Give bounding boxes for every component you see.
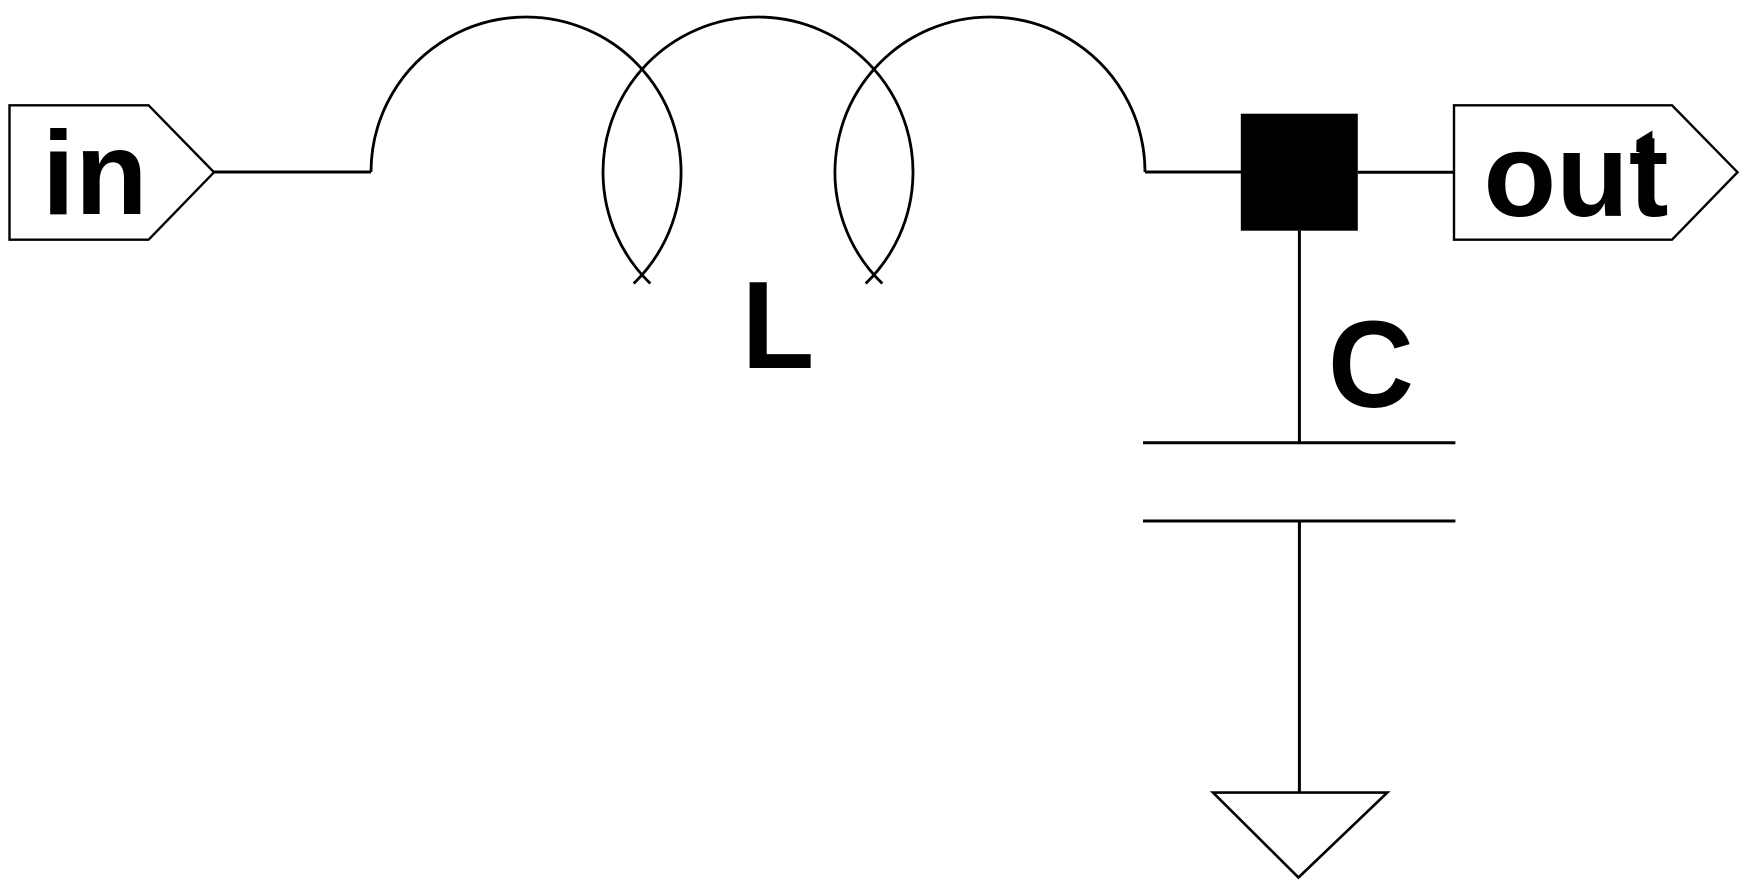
ground (1213, 793, 1387, 878)
label L (742, 256, 815, 395)
inductor L turn 2 (603, 17, 913, 283)
label "out" (1483, 109, 1668, 242)
capacitor C (1143, 443, 1455, 521)
port in (10, 105, 215, 239)
inductor L (371, 17, 1145, 283)
wire junction to capacitor C (1298, 231, 1301, 443)
port out (1454, 105, 1738, 239)
capacitor C top plate (1143, 441, 1455, 444)
svg-text:out: out (1483, 109, 1668, 242)
capacitor C bottom plate (1143, 520, 1455, 523)
svg-text:L: L (742, 256, 815, 395)
wire inductor to junction (1145, 171, 1241, 174)
inductor L turn 3 (835, 17, 1145, 283)
svg-text:in: in (42, 107, 148, 240)
wire capacitor to ground (1298, 521, 1301, 793)
junction node (solid square) (1241, 114, 1358, 231)
label "in" (42, 107, 148, 240)
label C (1328, 295, 1414, 433)
svg-text:C: C (1328, 295, 1414, 433)
wire in port to inductor (214, 171, 371, 174)
wire junction to out port (1358, 171, 1454, 174)
inductor L turn 1 (371, 17, 681, 283)
